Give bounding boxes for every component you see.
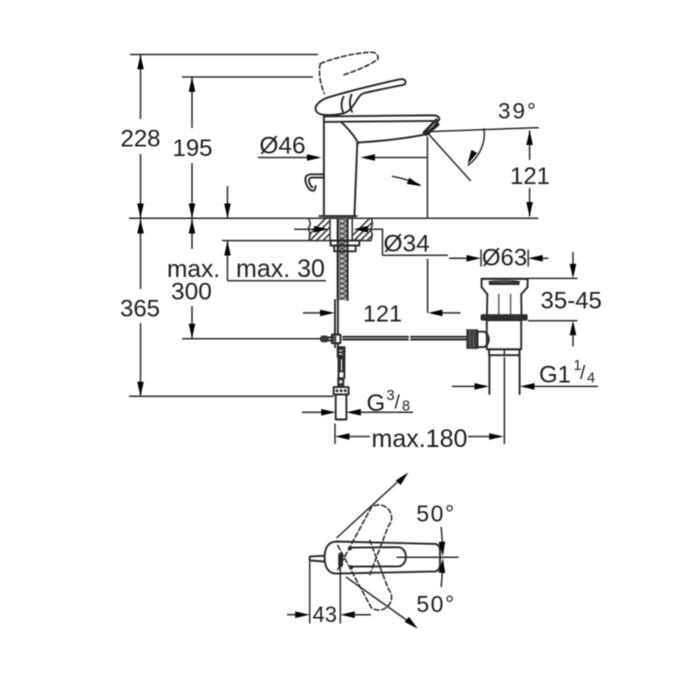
hook on back of body — [305, 174, 324, 190]
hole wall left in deck — [329, 218, 331, 240]
mounting nut — [334, 246, 356, 252]
lever dashed raised +50 — [338, 505, 392, 575]
dimension G3/8 arrows — [302, 409, 413, 416]
hose lower dark fitting — [338, 378, 344, 386]
reference line L2 (195 top) — [182, 76, 313, 78]
rod clamp block — [332, 335, 341, 344]
aerator extension line lower — [427, 259, 429, 313]
deck hatching right — [344, 218, 390, 244]
dimension max.180 — [335, 424, 504, 445]
faucet base flange — [319, 215, 356, 217]
dimension Ø63 arrows — [449, 250, 549, 267]
svg-text:228: 228 — [120, 126, 160, 153]
lever handle dashed (raised position) — [319, 52, 378, 93]
svg-text:4: 4 — [587, 371, 595, 387]
lever handle solid — [315, 79, 405, 115]
tab at front of lever — [310, 556, 324, 562]
lever inner outline — [353, 547, 406, 566]
water stream ray — [429, 134, 471, 181]
top reference line L1 (228 top) — [130, 54, 318, 56]
dimension 228 line — [137, 55, 144, 219]
deck hatching left — [300, 218, 352, 244]
pop-up waste neck — [487, 294, 522, 315]
pivot dot upper — [348, 546, 352, 550]
upper 50 terminator arrow — [439, 527, 447, 556]
39° angle arc with arrowhead — [465, 128, 485, 165]
countertop deck top line — [129, 217, 538, 219]
svg-text:G1: G1 — [539, 362, 571, 389]
hole wall right in deck — [351, 218, 353, 240]
dimension max.30 upper arrow — [224, 186, 231, 218]
svg-text:300: 300 — [171, 279, 212, 306]
svg-text:/: / — [395, 393, 401, 414]
svg-text:/: / — [580, 363, 586, 384]
lower 50 terminator arrow — [439, 558, 447, 587]
lever dashed lowered -50 — [338, 541, 392, 611]
waste bottom rim — [489, 349, 519, 355]
svg-text:121: 121 — [363, 301, 402, 327]
dimension max.30 lower arrow and shelf — [224, 241, 326, 281]
plug dark band — [489, 282, 520, 285]
39° horizontal reference ray — [429, 128, 539, 132]
dimension 121 (spout height) line — [526, 131, 533, 217]
svg-text:35-45: 35-45 — [541, 288, 602, 315]
mounting washer — [331, 241, 360, 246]
faucet top cap second line — [324, 121, 433, 122]
pop-up waste lower body — [487, 320, 521, 349]
body/spout inner transition curve — [342, 122, 359, 143]
pull rod below shank — [335, 300, 338, 335]
svg-text:121: 121 — [510, 163, 550, 190]
pivot dot lower — [349, 565, 353, 569]
rod below clamp — [335, 343, 338, 347]
svg-text:Ø46: Ø46 — [259, 133, 305, 160]
countertop deck bottom line — [222, 240, 372, 242]
svg-text:3: 3 — [387, 388, 395, 404]
svg-text:Ø34: Ø34 — [384, 231, 430, 258]
dimension max.300 line — [189, 219, 196, 338]
dimension G1 1/4 arrows — [452, 383, 598, 390]
lever pivot detail line — [342, 95, 352, 114]
centerline of lever — [397, 556, 459, 558]
aerator dark face — [426, 125, 438, 135]
dimension 35-45 arrows — [528, 252, 578, 347]
dimension Ø46 arrows — [258, 154, 428, 161]
svg-text:50°: 50° — [416, 591, 455, 617]
lever outer outline (top view) — [325, 542, 440, 574]
ball rod boss — [478, 332, 489, 347]
faucet body and spout outline — [324, 115, 439, 216]
dimension Ø34 arrows and leader — [294, 226, 448, 255]
spout tip face line — [424, 120, 437, 133]
upper 50 ray with arrowhead — [337, 470, 411, 538]
pivot bar mark — [338, 553, 343, 567]
threaded shank with crosshatch — [331, 213, 353, 304]
hose body — [339, 357, 345, 378]
svg-text:39°: 39° — [498, 99, 538, 124]
dimension 195 line — [189, 77, 196, 218]
knurled knob (dark) — [467, 330, 478, 349]
svg-text:max.180: max.180 — [372, 425, 468, 453]
pop-up waste seal flange (dark) — [481, 315, 527, 321]
pop-up linkage horizontal rod — [343, 337, 467, 340]
G3/8 nut — [334, 387, 349, 394]
rod clamp knob — [321, 336, 329, 342]
aerator extension line upper — [426, 137, 428, 218]
waste axis line — [503, 357, 505, 444]
hose upper hatched fitting — [338, 347, 345, 357]
dimension 121 (reach) horizontal — [303, 310, 461, 317]
svg-text:Ø63: Ø63 — [482, 245, 527, 272]
small curved arrow at aerator — [392, 176, 423, 189]
svg-text:max. 30: max. 30 — [236, 255, 325, 283]
svg-text:365: 365 — [120, 296, 160, 323]
svg-text:43: 43 — [313, 602, 337, 627]
G3/8 thread column — [336, 394, 347, 419]
tailpipe walls G1 1/4 — [489, 355, 519, 394]
max.300 reference line to rod — [182, 338, 321, 340]
pop-up waste top plug — [482, 279, 528, 287]
svg-text:50°: 50° — [416, 501, 455, 527]
dimension 365 line — [137, 219, 144, 396]
pop-up waste taper shoulder — [482, 287, 528, 294]
svg-text:195: 195 — [172, 135, 212, 162]
dimension 43 — [287, 561, 371, 624]
lower 50 ray with arrowhead — [346, 577, 420, 631]
bottom reference line (365 bottom / hose end) — [129, 395, 334, 397]
